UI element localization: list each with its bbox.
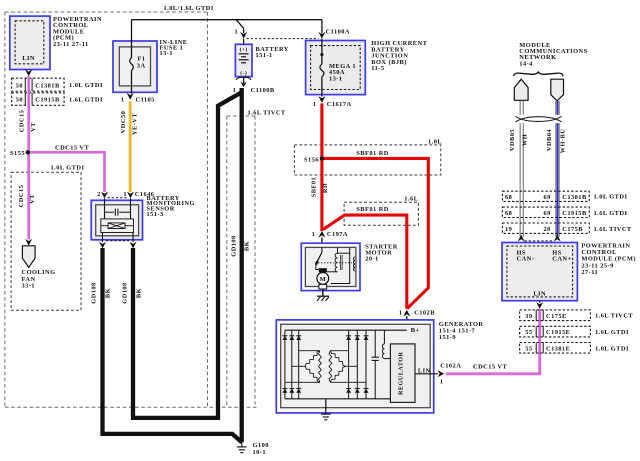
svg-text:CDC15 VT: CDC15 VT — [55, 144, 89, 151]
svg-text:1.0L GTDI: 1.0L GTDI — [69, 82, 103, 89]
svg-text:C175E: C175E — [546, 313, 567, 320]
svg-text:VT: VT — [30, 122, 37, 132]
svg-text:RD: RD — [322, 183, 329, 193]
svg-text:1.6L TIVCT: 1.6L TIVCT — [595, 313, 633, 320]
svg-text:BK: BK — [244, 241, 251, 251]
svg-text:C1617A: C1617A — [327, 101, 352, 108]
svg-text:WH-BU: WH-BU — [559, 129, 566, 154]
svg-text:68: 68 — [505, 210, 512, 217]
svg-text:151-9: 151-9 — [439, 334, 456, 341]
svg-text:1.0L: 1.0L — [428, 138, 442, 145]
svg-text:11-5: 11-5 — [371, 65, 384, 72]
svg-text:CDC15: CDC15 — [18, 185, 25, 208]
svg-text:1.6L TIVCT: 1.6L TIVCT — [248, 110, 286, 117]
svg-text:27-11: 27-11 — [581, 269, 598, 276]
svg-text:C102B: C102B — [414, 309, 435, 316]
svg-text:55: 55 — [525, 329, 532, 336]
svg-text:20: 20 — [544, 226, 551, 233]
svg-text:CDC15 VT: CDC15 VT — [473, 364, 507, 371]
svg-text:BK: BK — [104, 288, 111, 298]
svg-text:1: 1 — [235, 28, 239, 35]
svg-text:(-): (-) — [240, 70, 247, 77]
svg-text:151-1: 151-1 — [256, 52, 273, 59]
svg-text:1.6L TIVCT: 1.6L TIVCT — [594, 226, 632, 233]
svg-text:M: M — [319, 276, 326, 283]
svg-text:C102A: C102A — [440, 363, 461, 370]
svg-text:33-1: 33-1 — [22, 283, 36, 290]
svg-text:LIN: LIN — [533, 290, 546, 297]
svg-text:1.0L/1.6L GTDI: 1.0L/1.6L GTDI — [164, 5, 214, 12]
svg-text:S155: S155 — [10, 150, 25, 157]
svg-text:1.6L GTDI: 1.6L GTDI — [594, 210, 628, 217]
svg-text:C1381E: C1381E — [546, 346, 570, 353]
svg-text:50: 50 — [16, 82, 23, 89]
svg-text:68: 68 — [505, 194, 512, 201]
svg-text:1: 1 — [440, 379, 444, 386]
svg-text:GD108: GD108 — [122, 282, 129, 303]
svg-text:C1381B: C1381B — [35, 82, 60, 89]
svg-text:C175B: C175B — [562, 226, 583, 233]
svg-text:10-1: 10-1 — [253, 449, 267, 456]
svg-text:1: 1 — [399, 309, 403, 316]
svg-text:1.6L: 1.6L — [404, 195, 418, 202]
svg-text:3A: 3A — [137, 63, 146, 70]
svg-text:F1: F1 — [138, 56, 146, 63]
svg-text:1: 1 — [123, 191, 127, 198]
svg-text:151-3: 151-3 — [147, 211, 164, 218]
svg-text:GD108: GD108 — [231, 235, 238, 256]
svg-text:SBF01 RD: SBF01 RD — [356, 150, 389, 157]
svg-text:BK: BK — [135, 288, 142, 298]
svg-text:C1381B: C1381B — [562, 194, 587, 201]
svg-text:(+): (+) — [240, 46, 248, 53]
svg-text:YE-VT: YE-VT — [132, 113, 139, 135]
svg-text:GD108: GD108 — [91, 282, 98, 303]
svg-text:CAN-: CAN- — [517, 255, 535, 262]
svg-text:CAN+: CAN+ — [552, 255, 571, 262]
svg-text:S156: S156 — [304, 156, 319, 163]
svg-text:VDC50: VDC50 — [120, 111, 127, 134]
svg-text:C1915B: C1915B — [35, 97, 60, 104]
svg-text:1.6L GTDI: 1.6L GTDI — [69, 96, 103, 103]
svg-text:SBF01 RD: SBF01 RD — [356, 206, 389, 213]
svg-text:69: 69 — [544, 194, 551, 201]
svg-text:1: 1 — [233, 87, 237, 94]
svg-text:1: 1 — [312, 231, 316, 238]
svg-text:VDB04: VDB04 — [546, 129, 553, 151]
svg-text:CDC15: CDC15 — [19, 110, 26, 133]
svg-text:50: 50 — [16, 97, 23, 104]
svg-text:20-1: 20-1 — [365, 256, 379, 263]
svg-text:LIN: LIN — [22, 55, 35, 62]
svg-text:19: 19 — [505, 226, 512, 233]
svg-text:C1105: C1105 — [136, 97, 155, 104]
svg-text:23-11 27-11: 23-11 27-11 — [53, 41, 89, 48]
svg-text:VT: VT — [29, 194, 36, 204]
svg-text:LIN: LIN — [418, 368, 431, 375]
svg-text:69: 69 — [544, 210, 551, 217]
svg-text:REGULATOR: REGULATOR — [398, 352, 405, 395]
svg-text:55: 55 — [525, 346, 532, 353]
svg-text:1: 1 — [313, 101, 317, 108]
svg-text:13-1: 13-1 — [329, 75, 343, 82]
svg-text:C1100B: C1100B — [251, 87, 275, 94]
svg-text:1.0L GTDI: 1.0L GTDI — [595, 345, 629, 352]
svg-text:13-1: 13-1 — [160, 50, 174, 57]
svg-text:1.0L GTDI: 1.0L GTDI — [594, 194, 628, 201]
svg-text:C1915B: C1915B — [562, 210, 587, 217]
svg-text:1.0L GTDI: 1.0L GTDI — [51, 165, 85, 172]
svg-text:VDB05: VDB05 — [509, 129, 516, 151]
svg-text:2: 2 — [97, 191, 101, 198]
svg-text:B+: B+ — [411, 327, 420, 334]
svg-text:14-4: 14-4 — [519, 60, 533, 67]
svg-text:1.6L GTDI: 1.6L GTDI — [595, 329, 629, 336]
svg-text:1: 1 — [121, 97, 125, 104]
svg-text:SBF01: SBF01 — [311, 177, 318, 197]
svg-text:C1100A: C1100A — [326, 28, 350, 35]
svg-text:C1915E: C1915E — [546, 329, 570, 336]
svg-text:WH: WH — [522, 134, 529, 146]
svg-text:C197A: C197A — [327, 231, 348, 238]
svg-text:39: 39 — [525, 313, 532, 320]
